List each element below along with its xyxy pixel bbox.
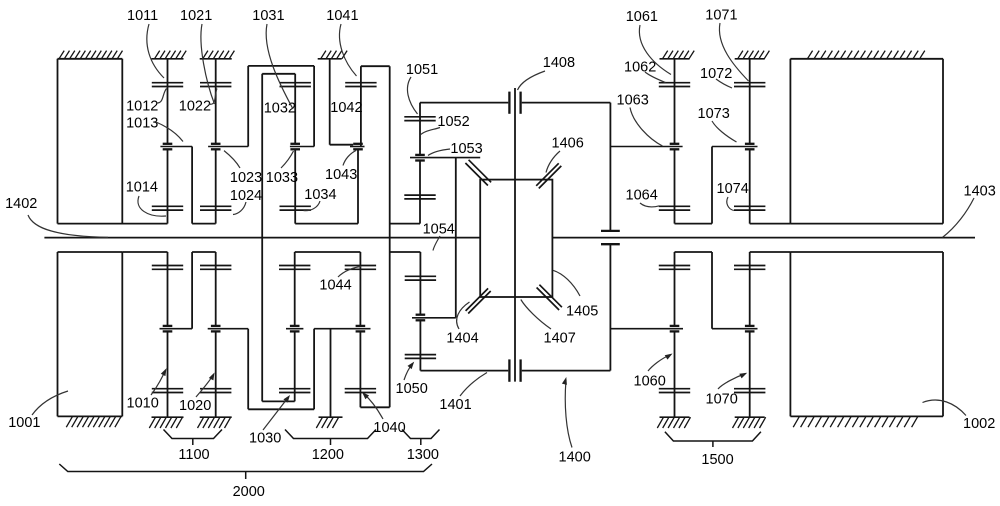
svg-text:1043: 1043 bbox=[325, 167, 357, 183]
svg-text:1402: 1402 bbox=[5, 196, 37, 212]
svg-text:1012: 1012 bbox=[126, 98, 158, 114]
svg-text:1033: 1033 bbox=[266, 170, 298, 186]
svg-text:1062: 1062 bbox=[624, 59, 656, 75]
svg-text:1021: 1021 bbox=[180, 8, 212, 24]
svg-text:1074: 1074 bbox=[717, 181, 749, 197]
svg-text:1403: 1403 bbox=[964, 183, 996, 199]
svg-text:1070: 1070 bbox=[706, 391, 738, 407]
svg-text:1014: 1014 bbox=[126, 179, 158, 195]
svg-text:1407: 1407 bbox=[544, 330, 576, 346]
svg-text:1011: 1011 bbox=[127, 8, 158, 24]
svg-text:1408: 1408 bbox=[543, 55, 575, 71]
svg-text:1053: 1053 bbox=[450, 141, 482, 157]
svg-text:1020: 1020 bbox=[179, 398, 211, 414]
svg-text:1034: 1034 bbox=[304, 187, 336, 203]
svg-text:1031: 1031 bbox=[252, 8, 284, 24]
svg-text:1044: 1044 bbox=[319, 278, 351, 294]
svg-text:1001: 1001 bbox=[8, 415, 40, 431]
svg-text:1002: 1002 bbox=[963, 416, 995, 432]
svg-text:1042: 1042 bbox=[330, 100, 362, 116]
svg-text:1404: 1404 bbox=[446, 330, 478, 346]
svg-text:1401: 1401 bbox=[439, 397, 471, 413]
svg-text:1022: 1022 bbox=[179, 98, 211, 114]
svg-text:1030: 1030 bbox=[249, 430, 281, 446]
svg-text:1073: 1073 bbox=[698, 106, 730, 122]
svg-text:1023: 1023 bbox=[230, 170, 262, 186]
svg-text:1500: 1500 bbox=[701, 452, 733, 468]
svg-text:1024: 1024 bbox=[230, 188, 262, 204]
svg-text:1300: 1300 bbox=[407, 447, 439, 463]
svg-text:1040: 1040 bbox=[373, 420, 405, 436]
svg-text:1060: 1060 bbox=[634, 373, 666, 389]
svg-text:1010: 1010 bbox=[127, 395, 159, 411]
svg-text:1063: 1063 bbox=[617, 92, 649, 108]
svg-text:1013: 1013 bbox=[126, 116, 158, 132]
svg-text:1051: 1051 bbox=[406, 62, 438, 78]
svg-text:1032: 1032 bbox=[264, 100, 296, 116]
svg-text:1400: 1400 bbox=[559, 449, 591, 465]
svg-text:1041: 1041 bbox=[326, 8, 358, 24]
svg-text:1064: 1064 bbox=[626, 187, 658, 203]
svg-text:1406: 1406 bbox=[552, 136, 584, 152]
svg-text:1050: 1050 bbox=[396, 381, 428, 397]
svg-text:1071: 1071 bbox=[705, 8, 737, 24]
svg-text:1054: 1054 bbox=[423, 221, 455, 237]
svg-text:1061: 1061 bbox=[626, 9, 658, 25]
svg-text:1200: 1200 bbox=[312, 447, 344, 463]
svg-text:1405: 1405 bbox=[566, 303, 598, 319]
svg-text:2000: 2000 bbox=[233, 484, 265, 500]
svg-text:1052: 1052 bbox=[437, 114, 469, 130]
svg-text:1100: 1100 bbox=[178, 447, 209, 463]
